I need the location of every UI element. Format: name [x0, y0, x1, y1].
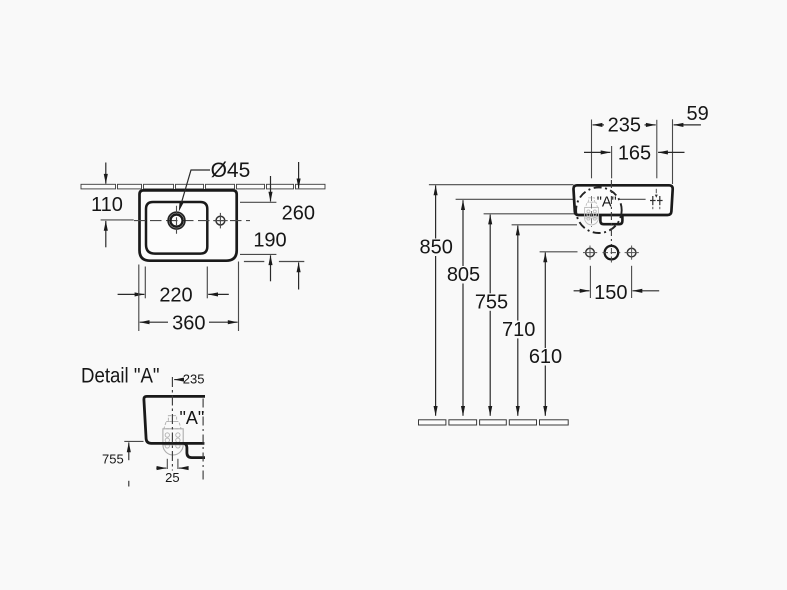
- svg-text:710: 710: [502, 319, 535, 341]
- dim 235 line + arrows: [593, 124, 604, 126]
- top dim extension verticals: [591, 120, 593, 179]
- svg-text:"A": "A": [180, 408, 205, 428]
- dim 150 extension lines: [589, 266, 591, 298]
- svg-text:260: 260: [282, 203, 315, 225]
- big hole: [605, 246, 619, 260]
- svg-text:755: 755: [475, 291, 508, 313]
- tap hole inner circle: [170, 215, 182, 227]
- basin side profile bowl protrusion: [600, 214, 622, 224]
- dim 755 arrow (detail): [128, 442, 130, 460]
- dim 260 bottom extension line: [244, 261, 264, 263]
- side fixing bracket (grey): [585, 198, 599, 225]
- dim 220 left arrow: [118, 293, 145, 295]
- dim 25 extension lines: [166, 459, 168, 469]
- bowl inner outline: [146, 202, 207, 254]
- svg-text:610: 610: [529, 346, 562, 368]
- dim 360 right extension line: [238, 262, 240, 332]
- dim 360 line + arrows: [140, 321, 168, 323]
- detail profile top/left outline: [144, 396, 205, 443]
- svg-text:235: 235: [608, 115, 641, 137]
- detail centerline vertical: [171, 377, 173, 471]
- dim 190 bottom arrow: [270, 255, 272, 281]
- svg-text:220: 220: [159, 285, 192, 307]
- dim 755 extension line (detail): [124, 440, 143, 442]
- fixing bracket trapezoid: [164, 422, 181, 429]
- ext line 710: [512, 224, 577, 226]
- tap hole marker (side): [650, 196, 663, 205]
- dim 110 bottom arrow: [105, 221, 107, 247]
- ext line 805: [456, 198, 573, 200]
- svg-text:755: 755: [102, 452, 124, 467]
- dim 165 arrows: [584, 151, 611, 153]
- floor line segments: [419, 420, 569, 425]
- dim 110 extension line: [101, 219, 134, 221]
- ext line 850: [429, 184, 574, 186]
- dim 220 left extension line: [144, 267, 146, 299]
- fixing bracket holes: [165, 433, 180, 448]
- label D45 leader: [181, 170, 210, 205]
- wall line (tile segments): [81, 184, 325, 189]
- dim 755 vertical: [489, 215, 491, 294]
- dim 710 vertical: [517, 226, 519, 321]
- tap centerline dash: [610, 180, 612, 245]
- tap hole center dot: [176, 220, 178, 222]
- ext line 610: [540, 251, 578, 253]
- ext line 755: [484, 213, 575, 215]
- dim 59 arrow: [674, 124, 701, 126]
- svg-text:360: 360: [172, 313, 205, 335]
- svg-text:150: 150: [594, 282, 627, 304]
- dim 260 bottom arrow: [298, 262, 300, 289]
- dim 150 arrows: [574, 290, 590, 292]
- dim 260 top arrow: [298, 162, 300, 188]
- detail circle A: [576, 187, 622, 233]
- dim 190 top extension line: [240, 201, 276, 203]
- fixing bracket body: [163, 429, 183, 445]
- basin side profile body: [573, 185, 672, 215]
- svg-text:805: 805: [447, 264, 480, 286]
- right fixing hole circle: [216, 216, 225, 225]
- right fixing hole cross: [213, 220, 228, 222]
- dim 235 arrow (detail): [174, 379, 182, 381]
- tap hole vertical centerline: [176, 206, 178, 234]
- dim 25 arrows: [156, 467, 166, 469]
- dim 805 vertical: [462, 200, 464, 266]
- svg-text:850: 850: [420, 237, 453, 259]
- detail right wall centerline: [202, 399, 204, 484]
- svg-text:Detail "A": Detail "A": [81, 365, 160, 388]
- dim 220 right arrow: [208, 293, 229, 295]
- svg-text:165: 165: [618, 143, 651, 165]
- right small hole: [627, 248, 636, 257]
- left small hole: [586, 248, 595, 257]
- svg-text:110: 110: [91, 194, 123, 216]
- svg-text:25: 25: [165, 470, 179, 485]
- dim 190 top arrow: [270, 176, 272, 202]
- dim 220 right extension line: [206, 267, 208, 299]
- side fixing centerline: [591, 196, 593, 227]
- svg-text:59: 59: [687, 103, 709, 125]
- tap hole outer circle: [168, 212, 185, 229]
- dim 610 vertical: [544, 253, 546, 349]
- centerline horizontal dashed: [134, 220, 250, 222]
- dim 190 bottom extension line: [240, 253, 276, 255]
- fixing bracket (grey) stub: [168, 416, 176, 422]
- ext line 805 inner segment: [620, 198, 646, 200]
- svg-text:"A": "A": [597, 194, 617, 210]
- svg-text:190: 190: [253, 230, 286, 252]
- detail profile step: [184, 443, 205, 457]
- dim 110 top arrow: [105, 163, 107, 184]
- dim 850 vertical: [435, 185, 437, 238]
- basin outer outline: [140, 190, 237, 260]
- svg-text:Ø45: Ø45: [211, 159, 251, 182]
- dim 360 left extension line: [138, 265, 140, 332]
- svg-text:235: 235: [183, 372, 205, 387]
- fixing bracket semicircle: [163, 445, 183, 455]
